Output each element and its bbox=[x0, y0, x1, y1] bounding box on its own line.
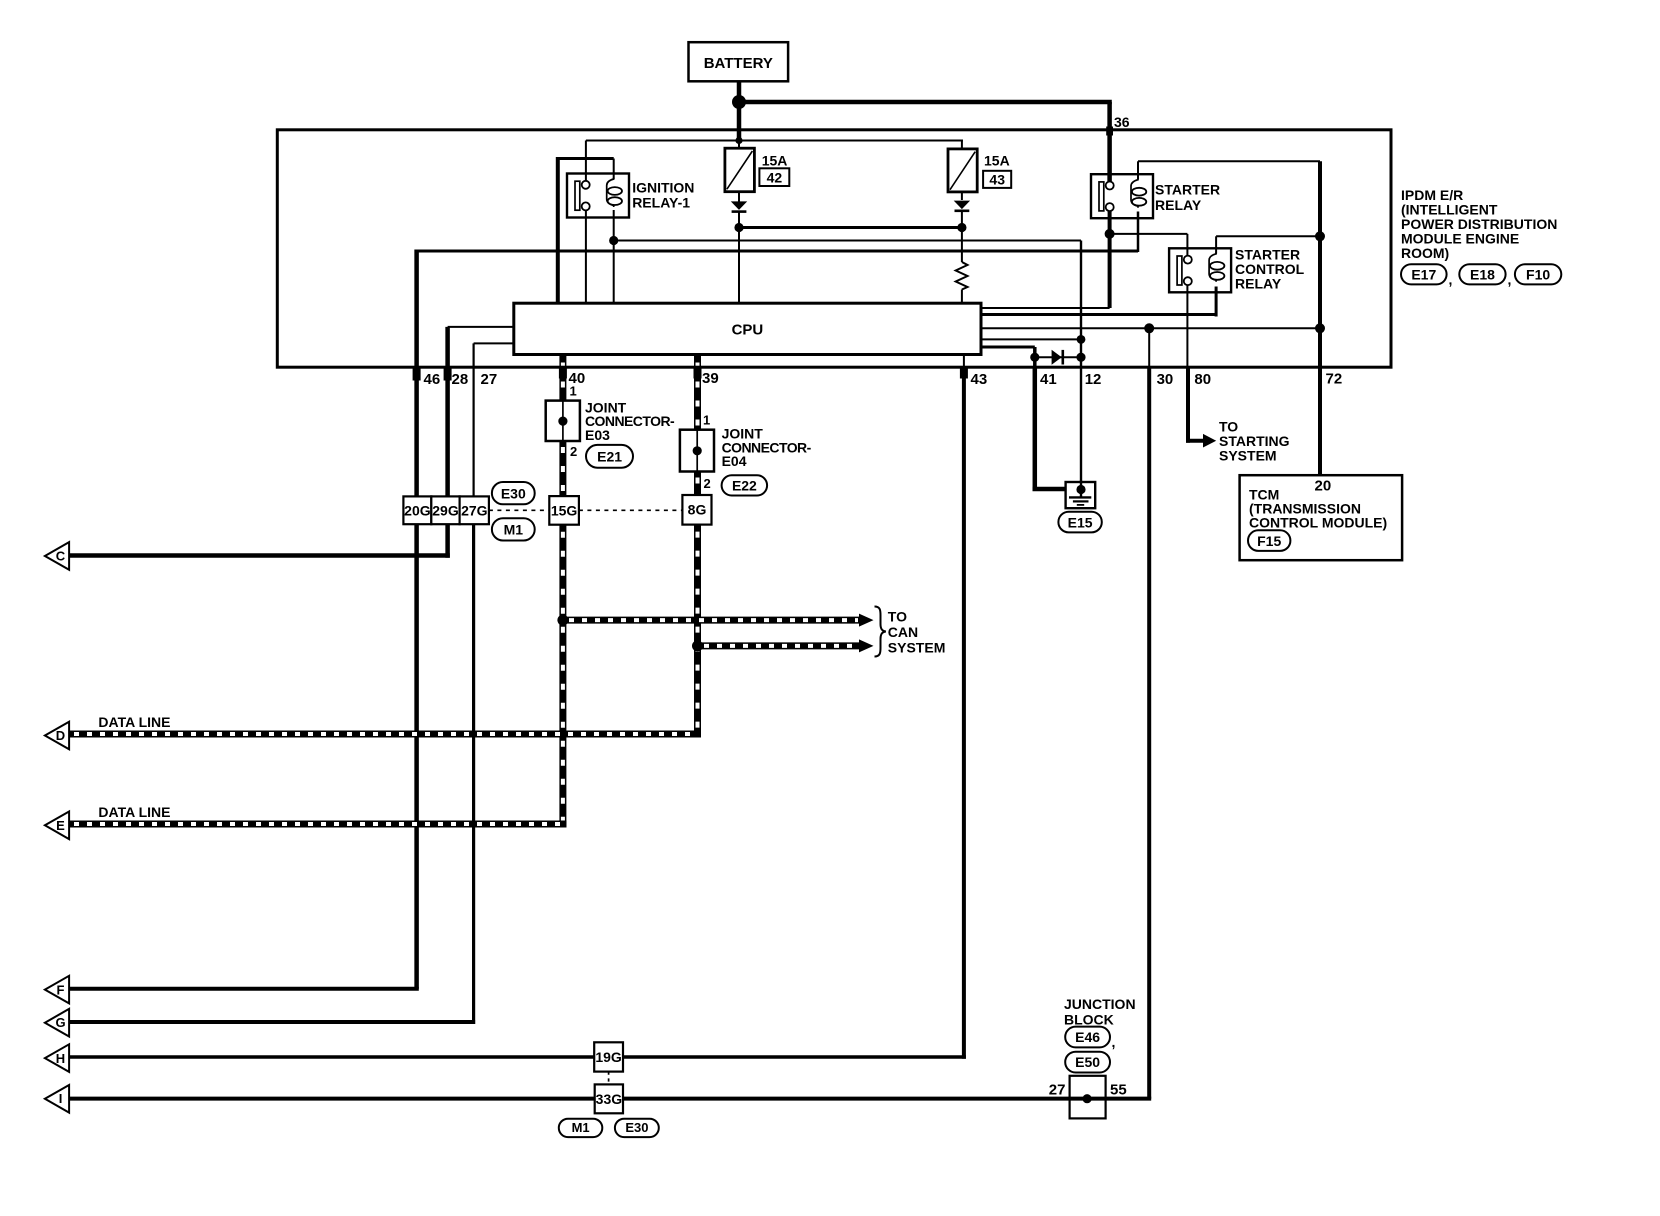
svg-text:E30: E30 bbox=[625, 1120, 648, 1135]
svg-text:E21: E21 bbox=[597, 449, 622, 465]
svg-text:36: 36 bbox=[1114, 114, 1130, 130]
svg-text:43: 43 bbox=[989, 171, 1005, 187]
svg-text:2: 2 bbox=[704, 476, 711, 491]
svg-text:27G: 27G bbox=[461, 502, 488, 518]
svg-text:G: G bbox=[55, 1015, 65, 1030]
svg-text:IGNITION: IGNITION bbox=[632, 180, 694, 196]
svg-text:33G: 33G bbox=[596, 1091, 623, 1107]
svg-text:27: 27 bbox=[1049, 1082, 1066, 1099]
svg-text:12: 12 bbox=[1085, 371, 1102, 388]
svg-text:I: I bbox=[59, 1091, 63, 1106]
svg-text:27: 27 bbox=[481, 371, 498, 388]
svg-text:41: 41 bbox=[1040, 371, 1057, 388]
svg-text:E15: E15 bbox=[1068, 514, 1093, 530]
svg-text:E17: E17 bbox=[1411, 266, 1436, 282]
svg-text:43: 43 bbox=[971, 371, 988, 388]
svg-text:E50: E50 bbox=[1075, 1054, 1100, 1070]
svg-text:20G: 20G bbox=[404, 502, 431, 518]
svg-text:15A: 15A bbox=[984, 153, 1010, 169]
svg-text:15A: 15A bbox=[762, 153, 788, 169]
svg-text:F: F bbox=[57, 983, 65, 998]
svg-text:72: 72 bbox=[1326, 371, 1343, 388]
svg-text:55: 55 bbox=[1110, 1082, 1127, 1099]
svg-text:42: 42 bbox=[767, 170, 783, 186]
svg-text:30: 30 bbox=[1157, 371, 1174, 388]
svg-text:1: 1 bbox=[570, 384, 577, 399]
svg-text:1: 1 bbox=[703, 413, 710, 428]
svg-text:E03: E03 bbox=[585, 427, 610, 443]
svg-text:19G: 19G bbox=[595, 1049, 622, 1065]
svg-text:RELAY-1: RELAY-1 bbox=[632, 195, 690, 211]
svg-text:15G: 15G bbox=[551, 503, 578, 519]
svg-text:RELAY: RELAY bbox=[1155, 197, 1202, 213]
svg-text:D: D bbox=[56, 728, 65, 743]
svg-text:F15: F15 bbox=[1257, 533, 1281, 549]
svg-text:28: 28 bbox=[452, 371, 469, 388]
svg-text:M1: M1 bbox=[504, 522, 524, 538]
svg-text:ROOM): ROOM) bbox=[1401, 245, 1449, 261]
svg-text:DATA LINE: DATA LINE bbox=[98, 804, 170, 820]
svg-text:46: 46 bbox=[424, 371, 441, 388]
svg-text:STARTER: STARTER bbox=[1155, 182, 1220, 198]
svg-text:CONTROL MODULE): CONTROL MODULE) bbox=[1249, 515, 1387, 531]
svg-text:JUNCTION: JUNCTION bbox=[1064, 996, 1136, 1012]
svg-text:80: 80 bbox=[1194, 371, 1211, 388]
svg-text:E18: E18 bbox=[1470, 266, 1495, 282]
svg-text:BLOCK: BLOCK bbox=[1064, 1011, 1114, 1027]
svg-text:DATA LINE: DATA LINE bbox=[98, 714, 170, 730]
svg-text:E: E bbox=[56, 818, 65, 833]
svg-text:8G: 8G bbox=[688, 502, 707, 518]
svg-text:39: 39 bbox=[702, 370, 719, 387]
svg-text:2: 2 bbox=[570, 444, 577, 459]
svg-text:SYSTEM: SYSTEM bbox=[888, 640, 946, 656]
svg-text:RELAY: RELAY bbox=[1235, 276, 1282, 292]
svg-text:,: , bbox=[1449, 271, 1453, 287]
svg-text:E46: E46 bbox=[1075, 1029, 1100, 1045]
svg-text:M1: M1 bbox=[572, 1120, 590, 1135]
svg-text:20: 20 bbox=[1315, 477, 1332, 494]
svg-text:29G: 29G bbox=[432, 502, 459, 518]
svg-text:SYSTEM: SYSTEM bbox=[1219, 448, 1277, 464]
svg-text:E22: E22 bbox=[732, 478, 757, 494]
svg-text:C: C bbox=[56, 549, 66, 564]
svg-text:CPU: CPU bbox=[732, 322, 764, 339]
svg-text:CAN: CAN bbox=[888, 624, 918, 640]
svg-text:H: H bbox=[56, 1051, 65, 1066]
svg-text:E30: E30 bbox=[501, 485, 526, 501]
svg-text:F10: F10 bbox=[1526, 266, 1550, 282]
svg-text:,: , bbox=[1112, 1034, 1116, 1050]
svg-text:,: , bbox=[1508, 271, 1512, 287]
svg-text:E04: E04 bbox=[722, 453, 747, 469]
svg-text:TO: TO bbox=[888, 609, 907, 625]
svg-text:BATTERY: BATTERY bbox=[704, 55, 773, 72]
